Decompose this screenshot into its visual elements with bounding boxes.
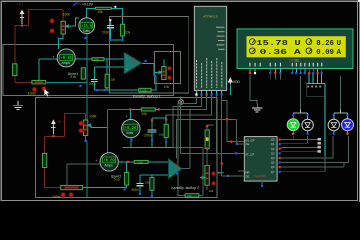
wire A2 right [118, 162, 134, 173]
svg-text:10k: 10k [209, 189, 214, 193]
svg-text:ST_CP: ST_CP [245, 153, 254, 157]
svg-text:+: + [126, 114, 128, 118]
svg-text:0.05: 0.05 [114, 178, 120, 182]
svg-text:+9.19V: +9.19V [82, 3, 94, 7]
LCD gauge icon r1c1 [249, 39, 255, 45]
wire divider node ch2 [108, 109, 131, 152]
svg-text:+15.8: +15.8 [82, 23, 92, 29]
svg-text:0.09: 0.09 [316, 49, 334, 57]
svg-text:16L: 16L [294, 59, 300, 63]
junction [144, 60, 146, 62]
wire pin to fuse [207, 124, 213, 126]
wire vertical from origin area to ST_CP row [181, 97, 217, 154]
ground symbol near MCU/LCD [252, 104, 262, 112]
MCU wire bundle pin2 [173, 96, 202, 148]
LCD gauge icon r2c1 [249, 48, 255, 54]
svg-text:MCP6002: MCP6002 [133, 58, 137, 71]
RV3 wiper arrow [88, 124, 91, 127]
shunt R1 terminal indicator left [32, 87, 36, 91]
resistor R15k [95, 7, 111, 9]
svg-text:Q3: Q3 [271, 151, 275, 155]
svg-text:100k: 100k [63, 13, 71, 17]
calibration group box 3 (bottom) [35, 97, 217, 197]
RV2 terminal indicator top [168, 67, 172, 71]
junction V1 bottom [84, 37, 86, 39]
op-amp2 plus input network [140, 175, 169, 184]
shunt resistor R1 (100m) [32, 80, 46, 84]
capacitor C2 [91, 79, 98, 81]
wire C1 bottom rail [110, 28, 122, 41]
svg-text:Q7: Q7 [271, 170, 275, 174]
RV2 top stub [163, 60, 165, 67]
svg-text:ATTINY13: ATTINY13 [203, 14, 217, 18]
voltmeter V1 [79, 18, 95, 34]
potentiometer RV2 [162, 67, 166, 80]
svg-text:+: + [95, 159, 97, 163]
wire op-amp1 output [142, 64, 158, 77]
svg-text:10k: 10k [125, 30, 131, 34]
svg-text:Q0: Q0 [271, 138, 275, 142]
595 output run Q0 [281, 139, 318, 141]
LCD LM016L body [237, 29, 353, 69]
bundle extra line [176, 119, 210, 158]
calibration group box 1 (top) [110, 16, 189, 93]
junction [151, 139, 153, 141]
595 output run Q2 [281, 146, 318, 148]
RV4 terminal indicator bottom [212, 182, 216, 186]
RV1 terminal indicator bottom [50, 29, 54, 33]
resistor R20k [141, 108, 155, 111]
svg-text:15k: 15k [97, 10, 103, 14]
LED bottom stubs [293, 131, 347, 133]
svg-text:Amps: Amps [62, 61, 71, 65]
ammeter A2 [95, 153, 122, 171]
resistor R10k-d [134, 160, 148, 163]
MCU U2 ATTINY13 [194, 6, 226, 90]
resistor with fuse mark (vertical, middle) [205, 130, 209, 149]
LED1 bottom wire [292, 136, 294, 140]
svg-text:200n: 200n [144, 134, 152, 138]
net tag [318, 146, 321, 149]
svg-text:Volts: Volts [126, 131, 133, 135]
wire bundle y119 extension to 595 CE [210, 119, 245, 144]
LED top bracket pair 1 [293, 109, 307, 119]
shunt R2 terminal indicator 2 [69, 193, 73, 197]
junction red on bundle [226, 118, 228, 120]
RV1 wiper arrow [66, 25, 72, 28]
junction red [127, 161, 129, 163]
op-amp U1:B MCP6002 [168, 159, 182, 179]
junction [307, 114, 309, 116]
resistor R10k-f [164, 124, 168, 137]
resistor R bottom (10k horizontal) [185, 194, 199, 197]
wire to op-amp minus [104, 59, 124, 74]
mouse cursor [44, 89, 49, 97]
resistor R10k-c (feedback vertical) [105, 74, 109, 88]
op-amp2 output [182, 109, 190, 168]
junction [121, 39, 123, 41]
595 output run Q6 [281, 163, 344, 168]
RV3 terminal indicator bottom [79, 128, 83, 132]
shunt R2 terminal indicator 1 [61, 193, 65, 197]
wire riser to LED pair1 [300, 76, 324, 113]
shunt resistor R2 (100m bottom) [61, 185, 83, 189]
svg-text:10k: 10k [159, 133, 164, 137]
resistor R10k-e [150, 178, 154, 191]
LED D4 (blue, lit) [342, 119, 354, 131]
RC bottoms to rail [152, 132, 166, 147]
74HC595 Q pin names [271, 138, 275, 174]
junction [139, 193, 141, 195]
MCU wire bundle pin5 [217, 96, 245, 154]
MCU bottom pin name columns [197, 58, 222, 88]
V2 bottom wire and rail [123, 138, 173, 148]
wire shunt2 right lead [83, 185, 127, 187]
svg-text:20k: 20k [141, 112, 147, 116]
capacitor C1 top stub [109, 21, 111, 25]
svg-text:-: - [170, 162, 171, 165]
svg-text:200n: 200n [102, 30, 110, 34]
wire riser to LED pair2 [340, 76, 342, 113]
595 right pin squares [279, 138, 281, 140]
svg-text:8.26: 8.26 [316, 40, 334, 48]
wire net VD1 (dark red) [15, 9, 63, 82]
probe VB arrow [51, 120, 56, 135]
wire to op-amp2 minus [148, 161, 168, 163]
svg-text:100m: 100m [28, 92, 37, 96]
RV2 terminal indicator bottom [168, 76, 172, 80]
LCD pin name marks [249, 63, 322, 67]
floating pin white [114, 6, 116, 8]
svg-text:200n: 200n [89, 82, 97, 86]
rail extension to bottom resistor [173, 147, 203, 189]
RV3 terminal indicator top [79, 121, 83, 125]
junction red below [206, 148, 208, 150]
wire plus input [94, 67, 124, 79]
wire R20k right [155, 108, 159, 110]
LED D2 (off) [302, 119, 313, 130]
MCU wire bundle pin6 [222, 96, 245, 142]
R bottom right lead [199, 189, 203, 195]
LED D3 (off) [328, 119, 339, 130]
shunt R1 terminal indicator right [42, 86, 46, 90]
595 output run Q3 [281, 151, 318, 153]
net tag [318, 138, 321, 141]
junction red cap [151, 119, 153, 121]
svg-text:0.05: 0.05 [70, 75, 76, 79]
wire A1 left sense [39, 59, 57, 80]
RV4 connect stub [206, 153, 208, 190]
capacitor C3 [148, 130, 157, 132]
potentiometer RV1 [61, 21, 65, 34]
MCU pin stubs [196, 90, 221, 93]
capacitor C4 [137, 184, 144, 186]
svg-text:CE: CE [245, 142, 249, 146]
junction [21, 25, 23, 27]
wire A2 sense from shunt2 [67, 164, 100, 186]
wire RV1 bottom to A1 [59, 34, 64, 49]
probe PV pencil icon [73, 2, 77, 6]
595 output run Q1 [281, 136, 308, 143]
MCU wire bundle pin3 [159, 96, 207, 110]
junction [165, 141, 167, 143]
sheet origin marker [179, 100, 184, 105]
junction [104, 89, 106, 91]
LED top bracket pair 2 [334, 109, 348, 119]
junction [109, 39, 111, 41]
wire R15k to R10k top [111, 8, 122, 24]
RV3 wiper wire [91, 125, 108, 127]
svg-text:VD1: VD1 [16, 3, 23, 7]
svg-text:Q4: Q4 [271, 156, 275, 160]
RV3 bottom wire [86, 136, 87, 198]
svg-text:Q1: Q1 [271, 142, 275, 146]
ch2 RC top wire [152, 115, 166, 130]
LCD gauge icon r1c2 [306, 39, 312, 45]
595 output run Q4 to LED3 [281, 136, 333, 158]
voltage probe VA (arrow) [20, 10, 25, 25]
red junction on box edge [121, 15, 123, 17]
junction [261, 185, 263, 187]
595 output run Q7 [281, 156, 325, 172]
wire LCD D4-D7 bracket [307, 74, 325, 156]
RV4 wiper arrow [200, 176, 205, 179]
svg-text:Калибр. выбор 1: Калибр. выбор 1 [133, 94, 161, 98]
svg-text:15.78 U: 15.78 U [256, 40, 301, 48]
svg-text:74HC595: 74HC595 [253, 174, 266, 178]
feedback wires [94, 76, 155, 90]
svg-text:Q5: Q5 [271, 161, 275, 165]
svg-text:10k: 10k [94, 58, 99, 62]
svg-text:VB: VB [57, 120, 62, 124]
junction [176, 172, 178, 174]
junction below [79, 85, 81, 87]
resistor R vertical below A2 [125, 173, 129, 186]
svg-text:10k: 10k [145, 180, 150, 184]
595 bottom stub [261, 181, 263, 185]
svg-text:Q6: Q6 [271, 165, 275, 169]
svg-text:10k: 10k [164, 85, 170, 89]
wire RS/E risers [270, 74, 280, 79]
bracket tag squares [307, 86, 309, 88]
svg-text:Amps: Amps [104, 163, 113, 167]
svg-text:VDD: VDD [233, 80, 240, 84]
resistor R10k (vertical under box edge) [120, 24, 124, 36]
74HC595 U3 [244, 137, 277, 182]
junction red above [206, 125, 208, 127]
VDD power symbol [228, 78, 240, 95]
RV1 terminal indicator top [50, 19, 54, 23]
feedback resistor R1k [139, 88, 151, 92]
svg-text:1.00k: 1.00k [140, 89, 147, 93]
calibration group box 2 (left) [3, 45, 174, 96]
junction red res [165, 119, 167, 121]
junction [130, 139, 132, 141]
wire V1 top to R15k [87, 8, 96, 18]
LCD gauge icon r2c2 [306, 48, 312, 54]
junction [346, 114, 348, 116]
ground symbol left [13, 101, 23, 110]
resistor R vertical right of shunt1 [81, 68, 85, 79]
resistor R10k-a [92, 58, 104, 61]
wire LCD VSS to ground [250, 75, 257, 104]
voltmeter V2 [122, 119, 140, 137]
LCD screen [247, 36, 346, 57]
svg-text:10k: 10k [138, 160, 143, 164]
RV2 wiper arrow [158, 71, 162, 74]
svg-text:0.36 A: 0.36 A [260, 49, 302, 57]
svg-text:Volts: Volts [83, 29, 90, 33]
MCU right-side pin name rows [216, 27, 225, 50]
cap/res bottoms [140, 186, 152, 197]
svg-text:U: U [337, 40, 342, 48]
junction red [129, 108, 131, 110]
op-amp U1:A MCP6002 [124, 52, 142, 74]
junction [154, 75, 156, 77]
svg-text:200n: 200n [131, 188, 139, 192]
long vertical wire pair right of box3 [221, 96, 223, 101]
wire A1 right to R10k-a [75, 58, 92, 60]
junction [151, 195, 153, 197]
potentiometer RV3 [83, 120, 87, 136]
small group box around RV2 [155, 52, 181, 84]
wire net VB (dark red) [45, 113, 86, 187]
potentiometer RV4 [205, 166, 209, 186]
LCD pin stubs [250, 69, 322, 73]
595 OE wire [222, 101, 245, 176]
LED pin state squares [292, 133, 294, 135]
junction [292, 114, 294, 116]
svg-text:10k: 10k [110, 78, 115, 82]
595 output run Q5 to LED4 [281, 136, 349, 163]
svg-text:Q2: Q2 [271, 147, 275, 151]
LCD pin state squares [249, 72, 251, 74]
595 left pin junction squares [230, 141, 232, 143]
floating pin white [109, 19, 111, 21]
LED D1 (green, lit) [287, 119, 299, 131]
MCU pin state squares [195, 93, 197, 95]
junction [333, 114, 335, 116]
capacitor C1 [107, 26, 114, 28]
junction [58, 38, 60, 40]
svg-text:10k: 10k [187, 194, 192, 198]
svg-text:100k: 100k [89, 115, 97, 119]
svg-text:100m: 100m [52, 195, 61, 199]
resistor R4 (vertical) [42, 154, 46, 168]
svg-text:Калибр. выбор 2: Калибр. выбор 2 [171, 186, 199, 190]
junction [52, 135, 54, 137]
svg-text:A: A [337, 49, 342, 57]
resistor R3 (vertical, left) [13, 64, 17, 76]
wire V2 top [130, 109, 141, 119]
svg-text:OE: OE [245, 175, 249, 179]
junction [96, 89, 98, 91]
junction [85, 140, 87, 142]
svg-text:-: - [126, 56, 127, 59]
wire shunt1 right rail [46, 34, 87, 122]
junction red 20k node [158, 108, 160, 110]
RV4 terminal indicator top [212, 172, 216, 176]
junction [124, 188, 126, 190]
MCU wire bundle pin1 [178, 96, 197, 196]
MCU wire bundle pin4 [166, 96, 211, 125]
wire wiper to V1 [72, 18, 80, 26]
ammeter A1 [53, 49, 79, 67]
net tag [318, 150, 321, 153]
